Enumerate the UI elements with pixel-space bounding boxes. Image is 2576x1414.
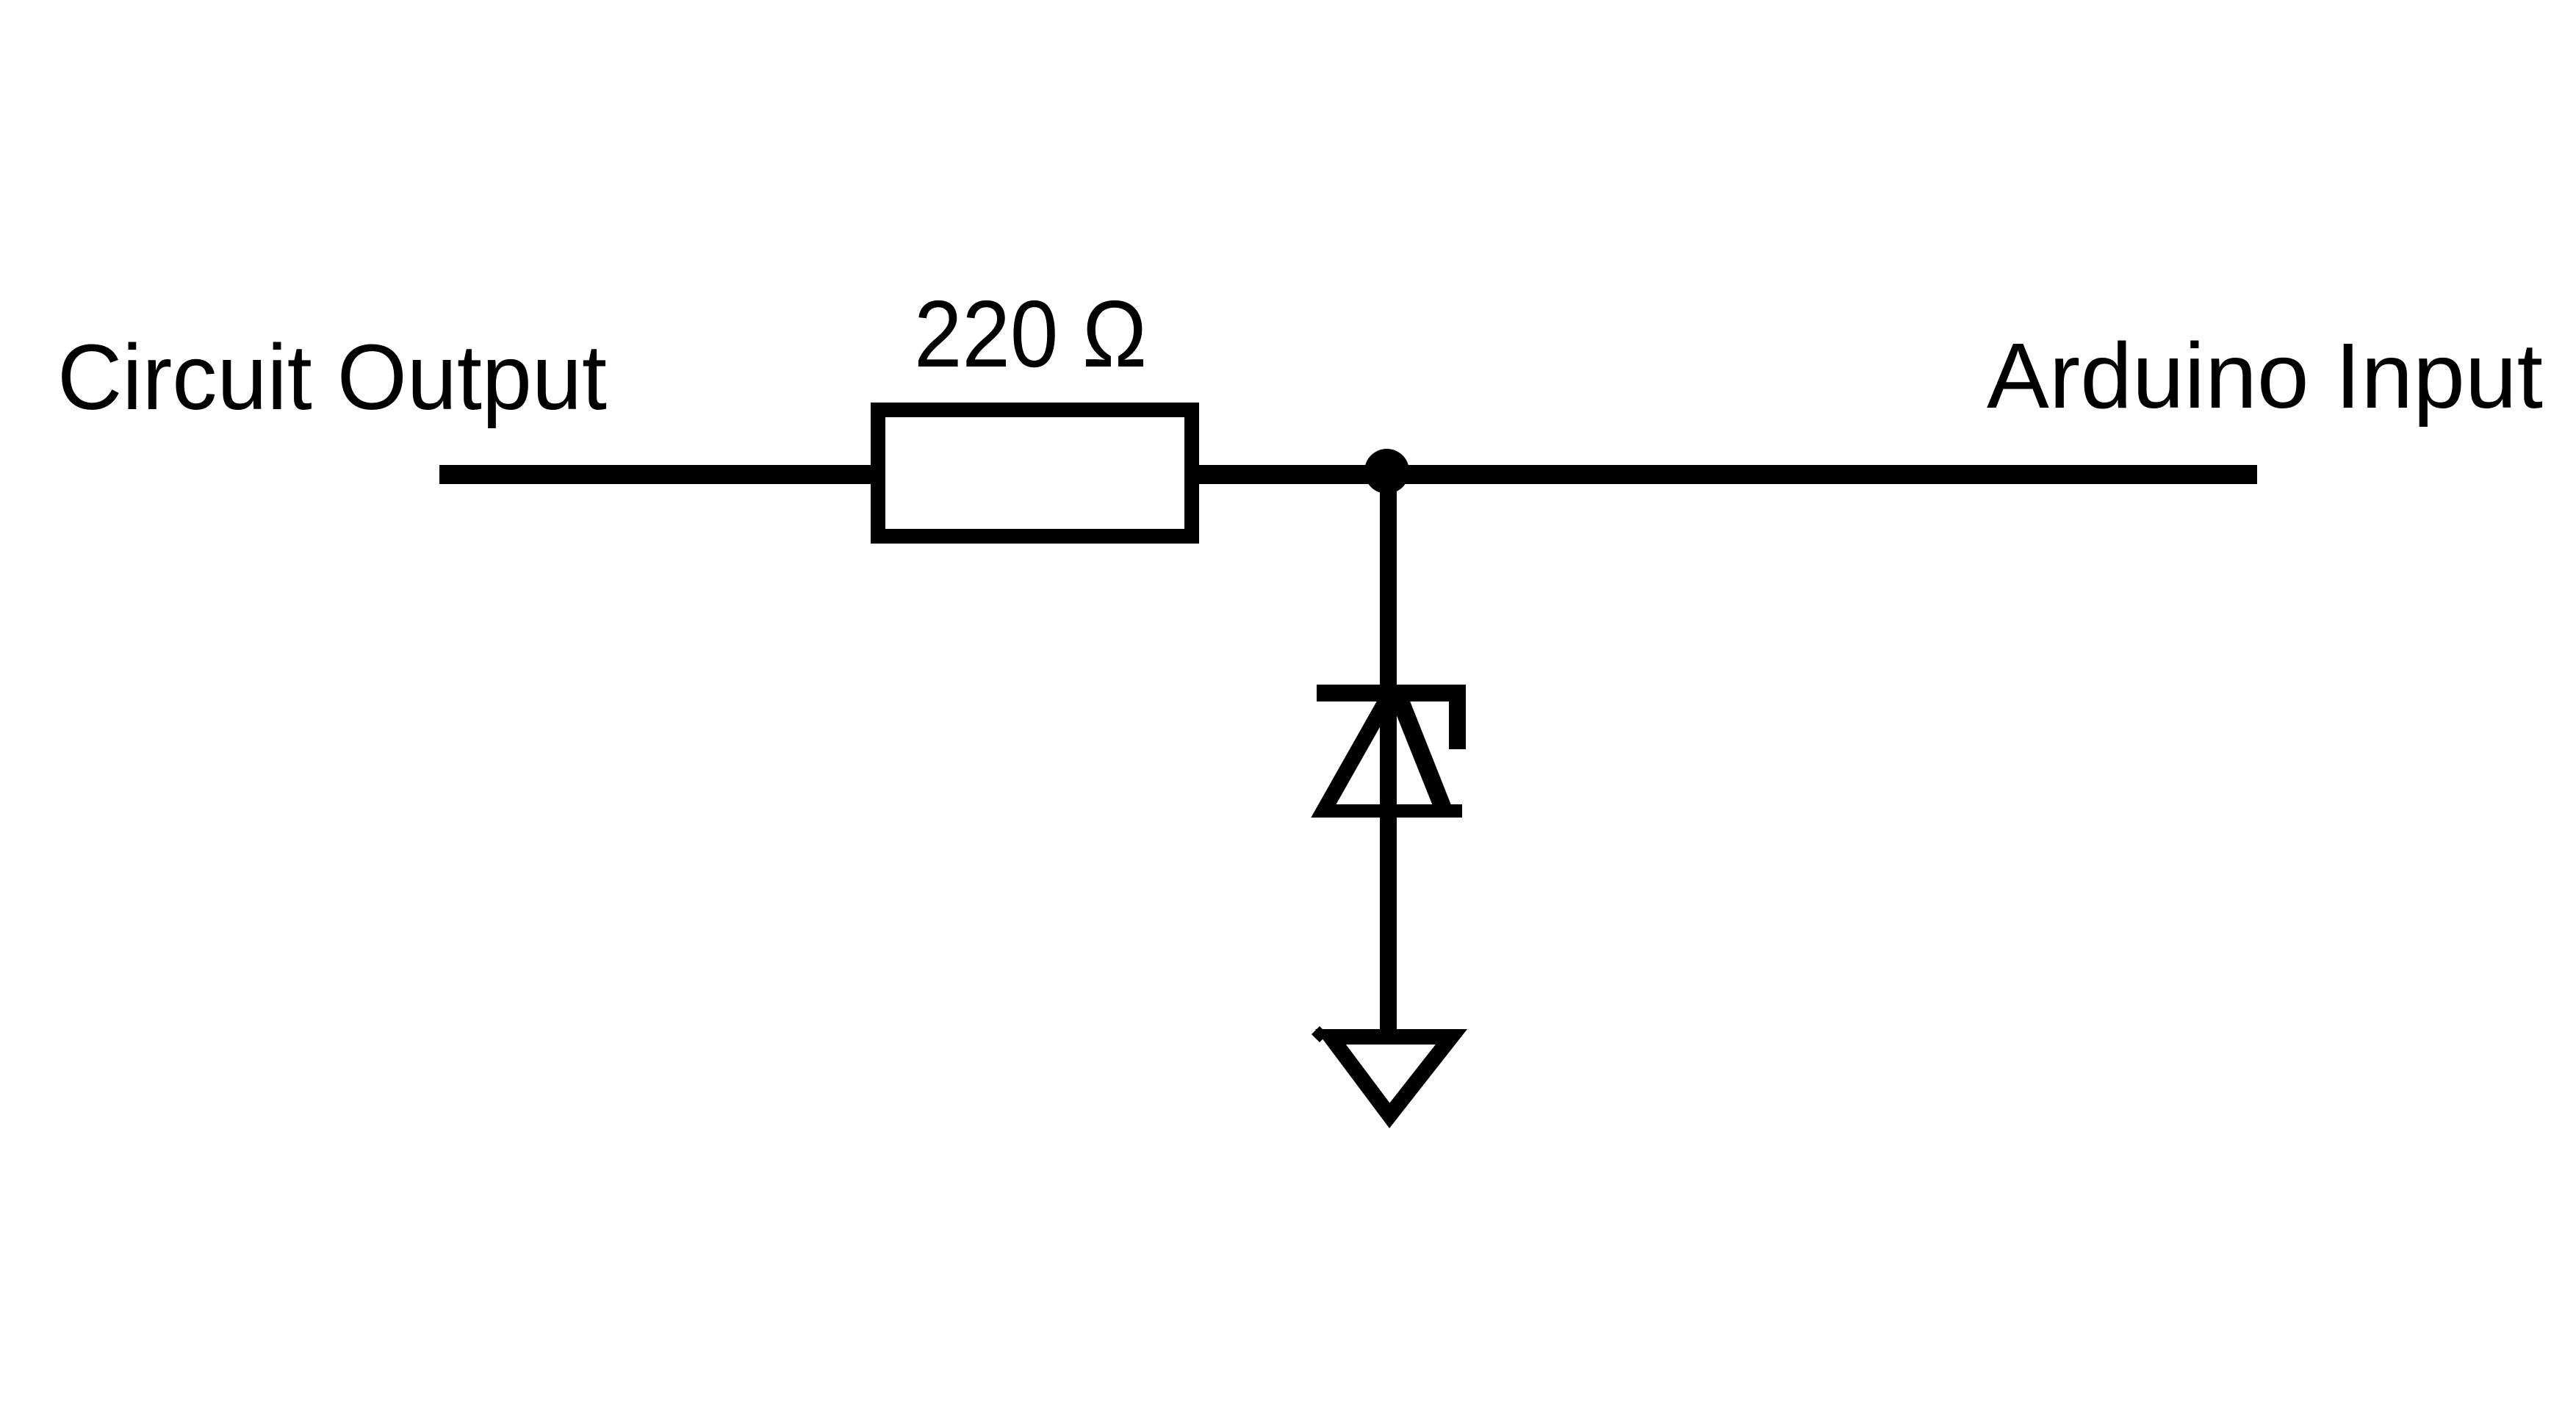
wire: vertical from junction through zener to ground — [1380, 474, 1397, 1042]
zener diode D1: anode triangle — [1311, 685, 1462, 818]
junction node dot — [1364, 449, 1409, 494]
resistor R1 body — [878, 410, 1192, 536]
svg-text:220 Ω: 220 Ω — [914, 281, 1147, 387]
svg-text:Circuit Output: Circuit Output — [57, 325, 607, 429]
svg-text:Arduino Input: Arduino Input — [1987, 324, 2543, 428]
zener diode D1: cathode right bend — [1449, 685, 1466, 749]
ground symbol corner artifact — [1312, 1026, 1328, 1042]
wire: left horizontal from Circuit Output to resistor — [439, 465, 878, 484]
zener diode D1: cathode bar — [1317, 685, 1466, 701]
wire: right horizontal from resistor to Arduino Input — [1192, 465, 2257, 484]
ground symbol — [1315, 1029, 1467, 1128]
